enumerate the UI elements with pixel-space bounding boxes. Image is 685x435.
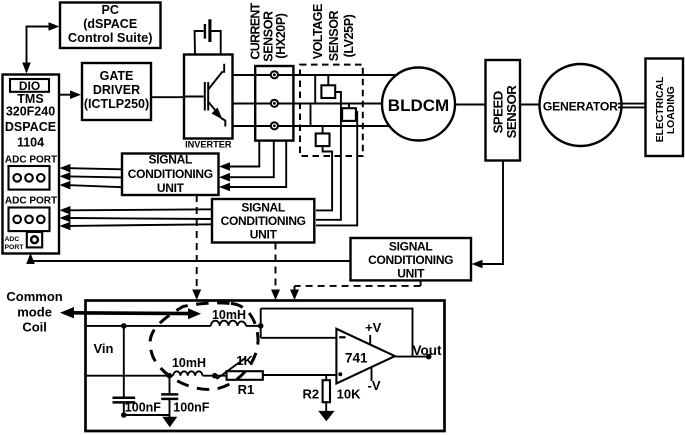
block signal conditioning unit 1 bbox=[122, 152, 219, 195]
svg-text:10K: 10K bbox=[337, 387, 361, 402]
sensor pickup phase A bbox=[271, 71, 278, 78]
wire Vin top line bbox=[87, 325, 211, 327]
wire gate driver to inverter bbox=[151, 96, 184, 98]
svg-text:UNIT: UNIT bbox=[250, 227, 278, 241]
wire SCU1 output 3 to ADC port 1 bbox=[60, 181, 123, 190]
resistor R1 bbox=[227, 371, 263, 380]
svg-text:R1: R1 bbox=[238, 382, 255, 397]
wire speed sensor to generator bbox=[520, 104, 545, 106]
block signal conditioning unit 2 bbox=[212, 199, 314, 243]
svg-text:1104: 1104 bbox=[17, 135, 44, 149]
wire C2 top lead bbox=[169, 376, 171, 394]
connector ADC port 2 bbox=[9, 208, 50, 232]
op-amp U1 741 bbox=[336, 329, 395, 384]
leader line 1K to R1 bbox=[217, 358, 247, 380]
svg-text:BLDCM: BLDCM bbox=[388, 96, 449, 115]
svg-text:ADC PORT: ADC PORT bbox=[5, 155, 57, 166]
sensor pickup phase C bbox=[271, 122, 278, 129]
dashed wire SCU1 to filter circuit bbox=[192, 195, 201, 300]
svg-text:VOLTAGE: VOLTAGE bbox=[311, 4, 325, 59]
wire generator to electrical loading (double line) bbox=[618, 104, 646, 108]
wire DSP to gate driver bbox=[59, 90, 81, 99]
wire C2 bottom lead bbox=[169, 399, 171, 417]
dashed wire SCU3 to filter circuit bbox=[290, 280, 421, 300]
svg-text:SENSOR: SENSOR bbox=[504, 85, 519, 139]
wire current sensor output 2 to SCU1 bbox=[230, 141, 274, 178]
svg-text:mode: mode bbox=[17, 304, 52, 319]
DC link capacitor above inverter bbox=[195, 19, 221, 54]
svg-text:CONDITIONING: CONDITIONING bbox=[128, 167, 213, 181]
wire DSP to PC link bbox=[22, 22, 59, 73]
wire C1 bottom lead bbox=[123, 403, 125, 415]
wire SCU3 output to ADC port 3 bbox=[26, 253, 350, 264]
voltage sensor element S1 bbox=[321, 75, 341, 104]
svg-text:741: 741 bbox=[345, 350, 368, 365]
svg-text:Vout: Vout bbox=[413, 343, 442, 358]
svg-text:GATE: GATE bbox=[100, 69, 134, 83]
svg-text:(ICTLP250): (ICTLP250) bbox=[84, 97, 149, 111]
svg-text:TMS: TMS bbox=[17, 92, 43, 106]
wire current sensor output 3 to SCU1 bbox=[230, 141, 286, 187]
svg-text:100nF: 100nF bbox=[125, 400, 161, 414]
op-amp pin minus marker bbox=[339, 336, 345, 338]
label TMS 320F240 DSPACE 1104 bbox=[5, 92, 56, 150]
block GATE DRIVER (ICTLP250) bbox=[82, 63, 151, 120]
inductor L1 10mH (top) bbox=[211, 321, 246, 326]
generator bbox=[540, 64, 622, 146]
svg-text:PORT: PORT bbox=[5, 244, 25, 251]
svg-text:Coil: Coil bbox=[22, 320, 47, 335]
op-amp +V supply pin bbox=[365, 320, 382, 346]
motor BLDCM bbox=[382, 68, 455, 141]
wire feedback top run bbox=[261, 309, 413, 357]
svg-text:+V: +V bbox=[365, 320, 382, 335]
annotation arrow common mode coil bbox=[60, 307, 201, 319]
wire Vin bottom line bbox=[87, 375, 174, 377]
arrowhead into SCU1 input 1 bbox=[219, 162, 230, 171]
block SPEED SENSOR bbox=[486, 60, 521, 161]
svg-text:INVERTER: INVERTER bbox=[185, 140, 232, 150]
label CURRENT SENSOR (HX20P) bbox=[249, 2, 288, 61]
svg-text:10mH: 10mH bbox=[212, 308, 246, 322]
wire SCU2 output 1 to ADC port 2 bbox=[60, 206, 213, 215]
label VOLTAGE SENSOR (LV25P) bbox=[311, 4, 356, 61]
wire L2 to R1 bbox=[203, 375, 227, 377]
dashed ellipse common mode coil highlight bbox=[150, 303, 258, 390]
svg-text:(dSPACE: (dSPACE bbox=[83, 17, 137, 31]
svg-text:Control Suite): Control Suite) bbox=[68, 30, 153, 45]
wire SCU2 output 3 to ADC port 2 bbox=[60, 222, 213, 231]
voltage sensor element S2 bbox=[342, 104, 357, 127]
wire BLDCM to speed sensor bbox=[455, 104, 486, 106]
svg-text:-V: -V bbox=[368, 378, 381, 393]
svg-text:(HX20P): (HX20P) bbox=[274, 13, 288, 58]
connector ADC port 1 bbox=[9, 166, 50, 190]
wire SCU1 output 1 to ADC port 1 bbox=[60, 164, 123, 173]
svg-text:Common: Common bbox=[6, 289, 62, 304]
svg-text:SIGNAL: SIGNAL bbox=[149, 152, 193, 166]
wire C1 top lead bbox=[123, 326, 125, 397]
svg-text:ADC: ADC bbox=[5, 236, 20, 243]
svg-text:DSPACE: DSPACE bbox=[5, 120, 56, 134]
svg-text:LOADING: LOADING bbox=[666, 86, 677, 134]
wire voltage sensor output 2 to SCU2 bbox=[316, 104, 341, 220]
wire voltage sensor tap B-C bbox=[310, 104, 312, 127]
wire bottom link C1 to C2 bbox=[124, 414, 170, 416]
svg-text:10mH: 10mH bbox=[172, 356, 206, 370]
wire R1 to op-amp plus input bbox=[263, 374, 337, 376]
block DSP controller TMS320F240 DSPACE1104 bbox=[3, 75, 60, 254]
sensor pickup phase B bbox=[271, 100, 278, 107]
wire R2 bottom lead bbox=[325, 402, 327, 411]
wire op-amp output bbox=[395, 356, 429, 358]
wire feedback vertical at node bbox=[260, 309, 262, 338]
ground symbol below C2 bbox=[162, 417, 177, 428]
wire L1 to op-amp minus node bbox=[246, 325, 261, 327]
svg-text:PC: PC bbox=[102, 3, 119, 17]
block INVERTER bbox=[184, 55, 233, 150]
block ELECTRICAL LOADING bbox=[646, 59, 684, 157]
wire voltage sensor output 1 to SCU2 bbox=[316, 146, 332, 210]
wire R2 tap bbox=[325, 375, 327, 380]
arrowhead into SCU1 input 3 bbox=[219, 183, 230, 192]
wire phase line B inverter to BLDCM bbox=[233, 103, 385, 105]
node junction L1 feedback bbox=[258, 323, 264, 329]
node junction L2 output bbox=[212, 373, 218, 379]
wire SCU2 output 2 to ADC port 2 bbox=[60, 214, 213, 223]
svg-text:100nF: 100nF bbox=[173, 400, 209, 414]
capacitor C2 100nF bbox=[161, 394, 178, 399]
wire SCU1 output 2 to ADC port 1 bbox=[60, 172, 123, 181]
svg-text:ADC PORT: ADC PORT bbox=[5, 195, 57, 206]
wire voltage sensor output 3 to SCU2 bbox=[316, 126, 357, 225]
svg-text:CURRENT: CURRENT bbox=[249, 2, 263, 59]
svg-text:SIGNAL: SIGNAL bbox=[389, 239, 433, 253]
node junction top line to C1 bbox=[121, 323, 127, 329]
op-amp pin plus marker bbox=[338, 372, 342, 376]
arrowhead into SCU1 input 2 bbox=[219, 173, 230, 182]
svg-text:DRIVER: DRIVER bbox=[93, 83, 140, 97]
block voltage sensor LV25P (dashed) bbox=[300, 65, 363, 156]
node junction bottom line to C2 bbox=[167, 373, 173, 379]
svg-text:GENERATOR: GENERATOR bbox=[543, 99, 618, 113]
svg-text:SIGNAL: SIGNAL bbox=[241, 201, 285, 215]
block current sensor HX20P bbox=[255, 66, 293, 141]
op-amp -V supply pin bbox=[368, 367, 381, 393]
transistor IGBT inside inverter bbox=[184, 64, 225, 127]
wire current sensor output 1 to SCU1 bbox=[230, 141, 259, 167]
svg-text:SENSOR: SENSOR bbox=[327, 10, 341, 61]
capacitor C1 100nF bbox=[113, 398, 136, 403]
svg-text:UNIT: UNIT bbox=[157, 181, 185, 195]
ground symbol below R2 bbox=[318, 411, 334, 421]
resistor R2 bbox=[323, 380, 330, 402]
svg-text:R2: R2 bbox=[302, 386, 319, 401]
node junction bottom wire bbox=[121, 412, 127, 418]
svg-text:ELECTRICAL: ELECTRICAL bbox=[655, 76, 666, 142]
block PC (dSPACE Control Suite) bbox=[60, 3, 161, 49]
svg-text:UNIT: UNIT bbox=[397, 266, 425, 280]
block filter circuit box bbox=[86, 301, 445, 432]
dashed wire SCU2 to filter circuit bbox=[271, 243, 280, 301]
label ADC PORT 3 (small) bbox=[5, 236, 25, 251]
node Vout bbox=[426, 354, 432, 360]
svg-text:DIO: DIO bbox=[19, 79, 40, 93]
svg-text:Vin: Vin bbox=[94, 341, 114, 356]
svg-text:CONDITIONING: CONDITIONING bbox=[368, 253, 453, 267]
svg-text:CONDITIONING: CONDITIONING bbox=[221, 214, 306, 228]
svg-text:320F240: 320F240 bbox=[6, 105, 55, 119]
wire voltage sensor tap A-B bbox=[314, 75, 316, 104]
wire phase line A inverter to BLDCM bbox=[233, 74, 399, 76]
block signal conditioning unit 3 bbox=[351, 238, 472, 280]
svg-text:(LV25P): (LV25P) bbox=[342, 14, 356, 57]
block DIO port bbox=[10, 79, 49, 93]
wire phase line C inverter to BLDCM bbox=[233, 125, 399, 127]
connector ADC port 3 bbox=[27, 232, 42, 247]
inductor L2 10mH (bottom) bbox=[173, 371, 202, 375]
wire speed sensor to SCU3 bbox=[472, 161, 504, 269]
wire op-amp minus input bbox=[261, 337, 337, 339]
voltage sensor element S3 bbox=[316, 126, 330, 146]
label Common mode Coil bbox=[6, 289, 62, 334]
